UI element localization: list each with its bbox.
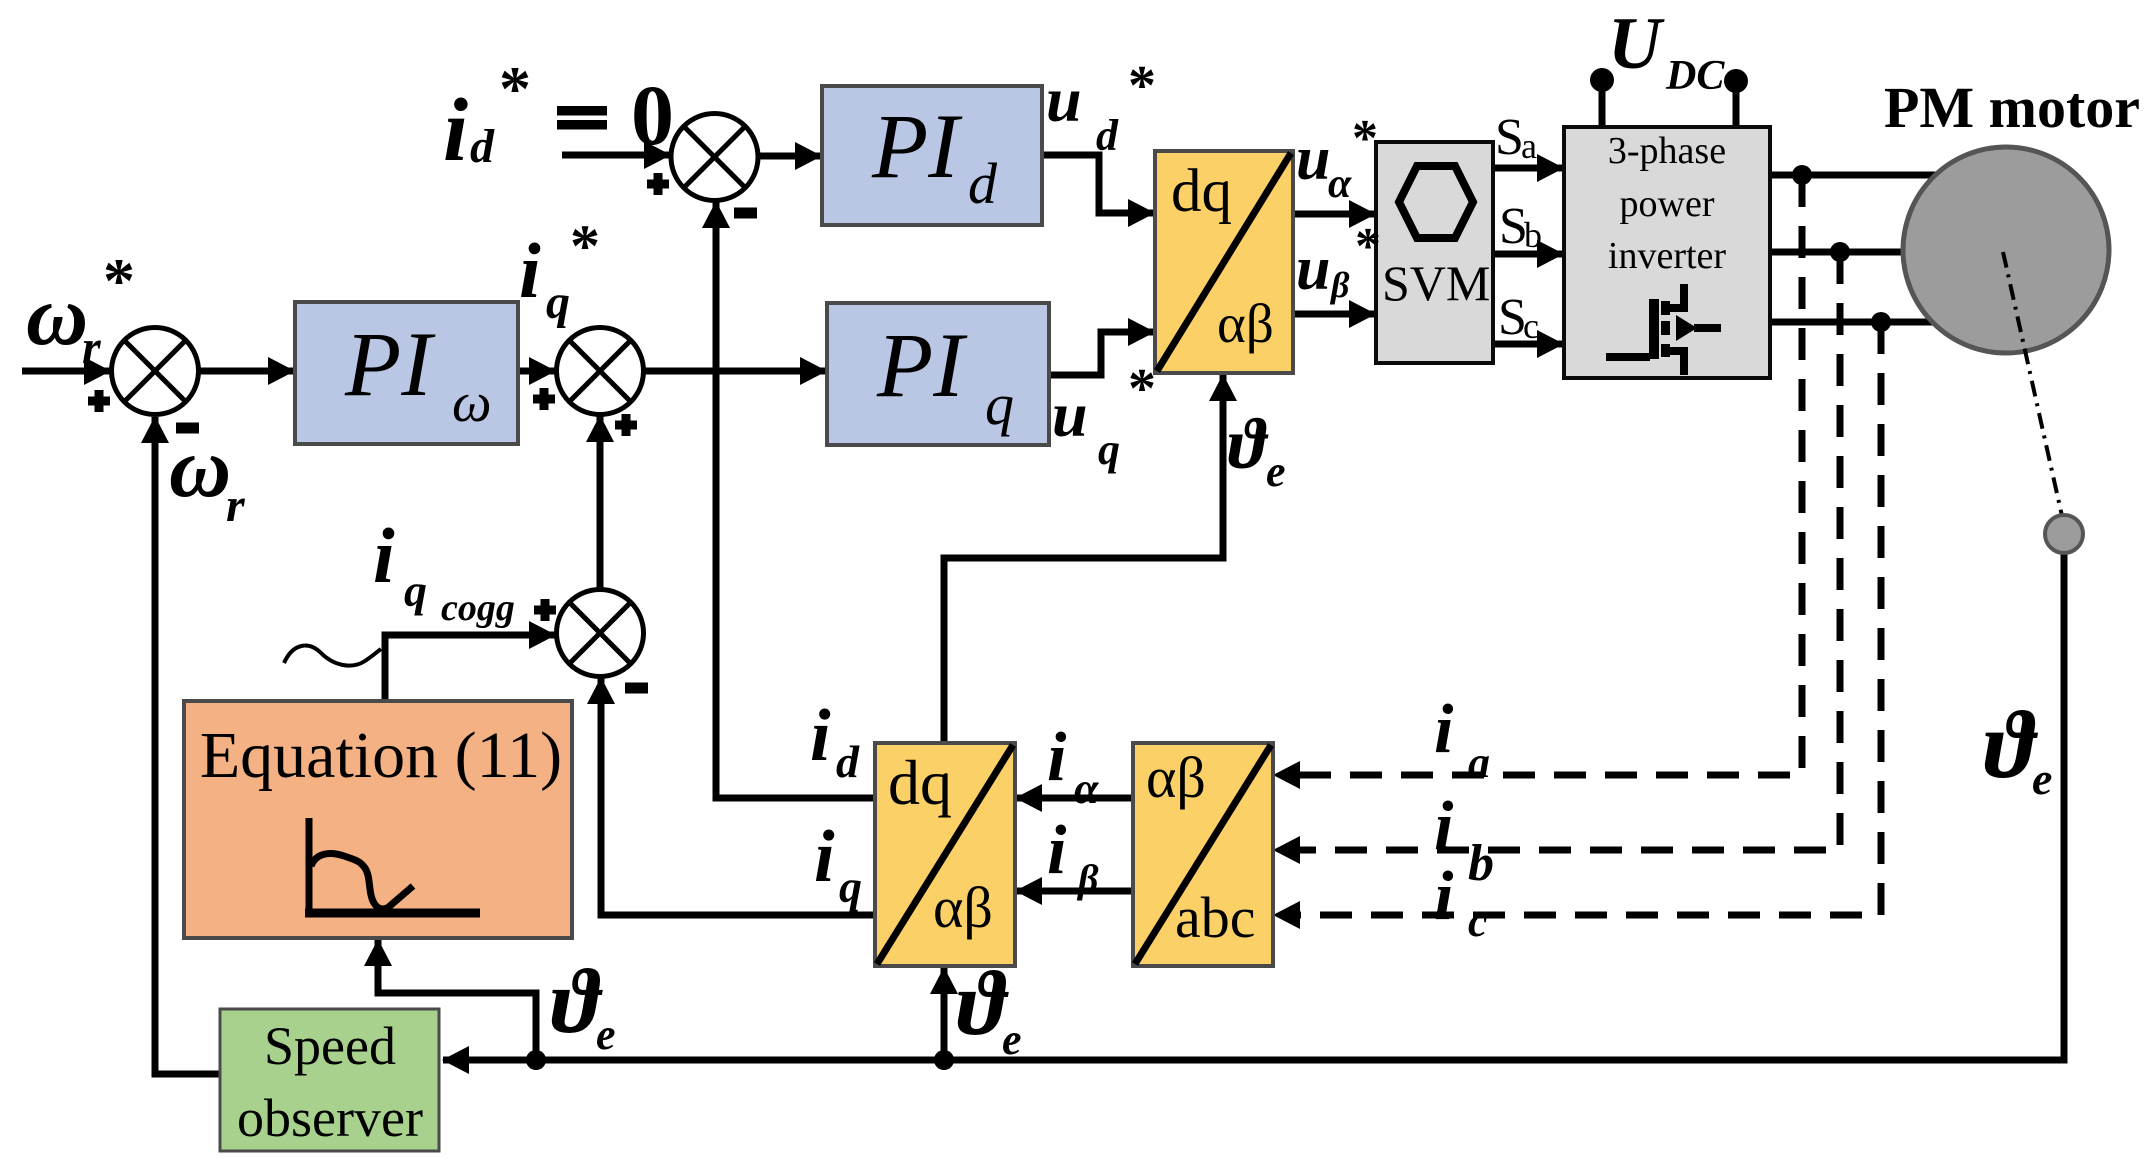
svg-text:ω: ω [26,267,88,363]
svg-text:i: i [519,227,541,314]
svg-text:i: i [1434,691,1454,768]
svg-text:*: * [103,245,135,316]
svg-text:αβ: αβ [933,875,993,940]
svg-text:ω: ω [169,419,231,515]
svg-text:q: q [985,372,1014,437]
svg-text:αβ: αβ [1146,745,1206,810]
svg-text:β: β [1076,856,1099,901]
svg-text:d: d [968,151,998,216]
svg-text:i: i [443,81,468,180]
svg-text:DC: DC [1665,53,1725,99]
svg-text:Equation (11): Equation (11) [200,719,562,792]
svg-text:ϑ: ϑ [1984,691,2039,798]
svg-text:i: i [1047,719,1067,796]
svg-text:d: d [836,736,860,787]
svg-text:q: q [1098,425,1120,474]
svg-text:e: e [1266,447,1286,496]
svg-text:i: i [1434,858,1454,935]
svg-text:αβ: αβ [1217,293,1274,354]
svg-text:*: * [499,53,531,124]
svg-text:inverter: inverter [1608,235,1727,277]
svg-text:i: i [810,695,831,777]
svg-text:*: * [1128,358,1156,420]
svg-text:c: c [1468,897,1488,946]
svg-text:e: e [2032,753,2052,804]
svg-text:cogg: cogg [441,587,515,629]
svg-text:a: a [1521,126,1537,166]
svg-text:b: b [1468,835,1494,892]
svg-text:r: r [226,479,246,532]
svg-text:α: α [1328,161,1352,207]
svg-text:PI: PI [344,313,436,415]
svg-text:abc: abc [1175,885,1256,950]
svg-text:*: * [1128,55,1156,117]
svg-text:i: i [373,512,395,599]
svg-text:PI: PI [871,95,963,197]
svg-text:ω: ω [452,372,492,434]
svg-text:*: * [1352,110,1378,167]
svg-text:U: U [1608,3,1665,85]
svg-text:u: u [1296,235,1330,303]
svg-text:*: * [1355,218,1381,275]
svg-text:r: r [82,321,102,374]
svg-text:PM motor: PM motor [1884,75,2140,140]
svg-text:Speed: Speed [264,1016,396,1076]
svg-text:i: i [1047,812,1067,889]
svg-text:ϑ: ϑ [1228,404,1269,484]
svg-text:PI: PI [876,314,968,416]
svg-text:power: power [1620,183,1715,225]
svg-text:b: b [1524,215,1542,255]
svg-text:i: i [814,816,835,898]
svg-text:*: * [570,213,600,279]
svg-text:S: S [1495,109,1524,166]
svg-text:0: 0 [631,67,674,163]
svg-text:a: a [1468,738,1490,787]
svg-text:e: e [1002,1015,1022,1064]
svg-text:d: d [470,120,495,173]
svg-text:q: q [404,565,427,616]
svg-text:dq: dq [888,747,952,818]
svg-text:e: e [596,1010,616,1059]
svg-text:α: α [1074,764,1099,813]
svg-text:i: i [1434,788,1454,865]
svg-text:d: d [1096,111,1119,160]
svg-text:dq: dq [1171,158,1232,225]
svg-text:u: u [1052,379,1088,450]
svg-text:u: u [1046,64,1082,135]
svg-text:q: q [546,276,570,329]
svg-text:β: β [1329,265,1350,305]
svg-text:u: u [1296,125,1330,193]
svg-text:q: q [839,861,862,912]
svg-text:observer: observer [237,1088,423,1148]
svg-text:SVM: SVM [1382,255,1490,311]
svg-text:c: c [1523,306,1539,346]
svg-text:3-phase: 3-phase [1608,130,1726,172]
